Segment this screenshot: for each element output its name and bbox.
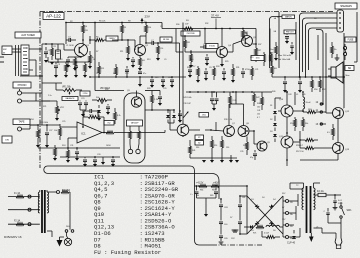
module outline	[124, 93, 145, 163]
junction dots right	[284, 76, 345, 93]
label box NF	[160, 37, 172, 42]
capacitor C2 elco	[56, 44, 61, 63]
svg-text:TAPE: TAPE	[19, 121, 25, 124]
ground G19	[220, 155, 224, 163]
resistor R32	[271, 62, 278, 77]
svg-text:C9: C9	[164, 59, 166, 61]
ground G20	[229, 155, 233, 163]
diode D9	[244, 225, 253, 229]
label row2 vals	[192, 66, 250, 71]
label 240	[66, 226, 70, 228]
wire psu rail	[195, 185, 241, 187]
wire Q1 base	[64, 44, 75, 50]
ground G16	[220, 58, 224, 67]
ground G2	[50, 62, 54, 65]
capacitor C29	[253, 150, 257, 160]
capacitor C13	[84, 101, 88, 111]
wire vert 270	[256, 29, 270, 63]
svg-text:10k: 10k	[54, 130, 57, 132]
svg-text:SW1: SW1	[347, 210, 353, 212]
capacitor C18	[75, 148, 79, 161]
terminal t3	[286, 224, 294, 229]
wire drv pair	[189, 122, 224, 131]
resistor R42b	[327, 124, 335, 140]
resistor R8	[145, 23, 153, 37]
wire psu feeds	[219, 181, 247, 196]
resistor R22	[189, 50, 193, 68]
terminal t4	[286, 236, 294, 241]
small text block	[278, 55, 292, 61]
svg-text:220: 220	[214, 145, 217, 147]
svg-text:BALANCE: BALANCE	[66, 97, 75, 100]
label pre out box	[284, 30, 296, 34]
wire out node	[293, 110, 304, 112]
capacitor C5	[146, 40, 158, 45]
resistor R27b	[270, 42, 278, 58]
resistor R9	[139, 56, 146, 69]
ground G26	[232, 230, 237, 232]
label speckle2	[66, 45, 149, 53]
wire mod right	[145, 106, 170, 111]
capacitor C7b	[125, 66, 129, 77]
svg-text:R21: R21	[43, 106, 46, 108]
wire bundle D	[309, 28, 338, 70]
capacitor C34	[219, 199, 223, 212]
diode D3	[273, 104, 277, 119]
junction dots psu	[196, 185, 248, 235]
resistor R11	[98, 62, 106, 77]
wire bundle C	[305, 23, 337, 78]
svg-text:MIC: MIC	[3, 49, 7, 51]
wire stage1 out	[112, 39, 135, 41]
label speckle3	[60, 59, 166, 61]
svg-text:CLP-40: CLP-40	[287, 242, 296, 245]
wire q6 base	[122, 110, 177, 133]
ground G8b	[64, 75, 68, 78]
ground G10	[161, 85, 165, 88]
svg-text:R45: R45	[243, 145, 246, 147]
fuse F2 box	[314, 190, 333, 197]
label cap vals	[224, 207, 229, 240]
op-amp IC1	[77, 122, 102, 143]
phono eq res	[114, 108, 121, 124]
svg-text:R39 1.2k: R39 1.2k	[224, 119, 232, 121]
resistor R15	[151, 91, 160, 107]
capacitor C27	[283, 77, 287, 93]
wire bus95 down	[42, 93, 57, 125]
fusing resistor FU	[184, 20, 193, 30]
svg-text:F1 3A: F1 3A	[14, 192, 21, 195]
capacitor C7	[54, 62, 61, 75]
T1 sec terminal	[57, 189, 71, 194]
svg-text:R23 100k: R23 100k	[40, 122, 48, 124]
pin circle P1	[128, 149, 132, 153]
svg-text:R3: R3	[60, 59, 62, 61]
wire jack feeds	[30, 93, 42, 101]
wire switch top	[332, 194, 341, 202]
label speakers box	[335, 3, 357, 9]
svg-text:R37: R37	[258, 44, 261, 46]
T1 terminal 2	[28, 208, 31, 211]
transistor Q4	[242, 36, 253, 47]
svg-text:8Ω: 8Ω	[348, 67, 351, 70]
terminal 11	[316, 109, 319, 112]
wire drv bottom	[190, 155, 237, 158]
resistor R17	[106, 131, 122, 134]
capacitor C9	[150, 77, 154, 85]
capacitor C39	[333, 195, 343, 206]
switch SW1	[340, 202, 352, 223]
label input select	[15, 32, 41, 38]
svg-text:R24: R24	[62, 145, 65, 147]
transistor Q7	[224, 126, 235, 137]
ground G15	[101, 157, 105, 165]
resistor R21	[184, 36, 192, 52]
resistor R1	[51, 44, 57, 60]
svg-text:C17: C17	[192, 66, 195, 68]
wire net148	[38, 147, 120, 149]
resistor R2k2	[229, 92, 238, 108]
ground G3	[66, 65, 70, 68]
capacitor C21	[200, 44, 210, 49]
left margin ticks	[0, 57, 4, 62]
speaker SP1	[328, 62, 343, 83]
wire module pins	[130, 144, 139, 149]
resistor R27	[270, 52, 273, 66]
ground G8d	[83, 75, 87, 78]
T1 secondary winding	[47, 190, 49, 213]
svg-text:IC1: IC1	[81, 132, 86, 136]
transistor Q13	[333, 143, 344, 154]
svg-text:C13: C13	[125, 73, 128, 75]
resistor R37	[303, 109, 320, 114]
resistor Rtr	[331, 42, 337, 58]
svg-text:C19: C19	[250, 57, 253, 59]
svg-text:R61: R61	[200, 190, 203, 192]
ground bus loop	[44, 166, 219, 199]
ground G25	[234, 226, 240, 232]
wire Q3 coll up	[221, 28, 223, 47]
label impedance	[345, 66, 354, 71]
transistor Q8	[238, 126, 249, 137]
pilot lamp	[64, 236, 71, 246]
svg-text:C45: C45	[302, 94, 305, 96]
svg-text:MAIN IN: MAIN IN	[285, 15, 292, 18]
svg-text:R6 22k: R6 22k	[99, 21, 105, 23]
chassis border top dash-dot	[40, 11, 333, 13]
svg-text:2.2k: 2.2k	[160, 48, 164, 50]
label out vals	[279, 99, 350, 153]
resistor R16	[82, 115, 105, 134]
ground G18	[210, 155, 214, 163]
jack J4	[18, 127, 31, 131]
capacitor C38	[238, 215, 242, 234]
resistor R19	[37, 125, 40, 142]
svg-text:20uH: 20uH	[306, 102, 311, 104]
wire left net125	[30, 124, 60, 127]
label fuse box	[345, 37, 356, 42]
T1 tap wire 3	[8, 223, 40, 225]
wire Q2 coll	[140, 36, 147, 45]
wire q10 q11	[286, 117, 288, 136]
T1 sec bottom	[47, 231, 60, 237]
shield wire pair	[12, 45, 21, 76]
capacitor C31	[290, 42, 294, 55]
svg-text:10/50: 10/50	[106, 145, 111, 147]
wire 256 up	[255, 29, 257, 45]
svg-text:Rxx: Rxx	[270, 49, 273, 51]
svg-text:R63: R63	[212, 190, 215, 192]
wire q7 up	[235, 91, 237, 104]
svg-text:D2: D2	[270, 119, 272, 121]
svg-text:1k: 1k	[93, 59, 95, 61]
resistor R6	[121, 23, 127, 41]
rail link	[161, 23, 163, 29]
svg-text:FU : Fusing Resistor: FU : Fusing Resistor	[94, 249, 161, 256]
svg-text:R49: R49	[257, 103, 260, 105]
capacitor C30	[285, 34, 289, 44]
label caps	[70, 145, 111, 156]
svg-text:R31: R31	[236, 67, 239, 69]
wire row76	[20, 75, 42, 77]
label din box	[2, 136, 12, 143]
wire vert95	[94, 23, 96, 91]
wire corner 269	[270, 17, 283, 21]
svg-text:D35/220V 16: D35/220V 16	[4, 235, 22, 239]
svg-text:R17: R17	[113, 73, 116, 75]
svg-text:PRE OUT: PRE OUT	[286, 32, 295, 34]
resistor R30	[231, 64, 235, 83]
svg-text:C29: C29	[163, 88, 166, 90]
capacitor C1	[44, 47, 51, 58]
wire 183 vertical	[182, 23, 184, 125]
resistor R4	[89, 51, 94, 66]
label cluster	[183, 97, 260, 119]
label trim box	[199, 113, 209, 118]
wire j4 feed	[30, 125, 38, 129]
wire IC1 inputs	[60, 127, 77, 148]
svg-text:R30: R30	[176, 24, 179, 26]
wire q10 base	[275, 108, 281, 111]
resistor R12	[115, 64, 118, 77]
wire T1 right	[69, 192, 70, 226]
resistor R10	[156, 43, 163, 61]
svg-text:FU: FU	[186, 20, 189, 22]
resistor R34	[211, 136, 214, 155]
svg-text:R33: R33	[216, 66, 219, 68]
wire mid right77	[272, 76, 345, 78]
wire q7 coll up	[229, 104, 244, 126]
T2 primary winding	[314, 186, 316, 210]
capacitor C8a	[74, 62, 78, 75]
label psu voltages	[196, 183, 219, 185]
diode D2	[167, 109, 176, 123]
capacitor C11	[170, 77, 174, 85]
T1 tap wire 2	[8, 209, 40, 211]
diode D7	[255, 221, 259, 225]
wire corner 279	[278, 11, 280, 13]
ground G24	[219, 242, 224, 244]
wire plug feed	[314, 223, 342, 238]
ground G13	[36, 142, 40, 148]
label P	[317, 226, 319, 230]
input connector CN1	[21, 45, 29, 75]
wire bundle A	[299, 13, 337, 78]
wire psu mid	[197, 198, 217, 210]
jack J2	[18, 89, 31, 95]
resistor Rc62	[261, 92, 264, 110]
svg-text:R50: R50	[314, 89, 317, 91]
terminal t2	[286, 212, 294, 217]
chassis border bottom dash-dot	[212, 244, 263, 246]
wire bundle E	[316, 30, 326, 34]
wire vert66	[65, 23, 67, 34]
wire vert 205	[204, 28, 206, 44]
pot VR2	[56, 102, 65, 118]
T2 ground arrow	[309, 233, 314, 242]
wire module top	[124, 91, 160, 97]
ground G9	[150, 85, 154, 88]
terminal circles out	[320, 103, 322, 125]
chassis border left dash-dot	[39, 12, 41, 169]
svg-text:23V: 23V	[145, 15, 150, 19]
resistor R11b	[84, 62, 87, 75]
ground G28	[333, 206, 338, 210]
transistor Q9	[257, 141, 267, 151]
wire Q2 base	[133, 40, 136, 50]
svg-text:C43: C43	[288, 94, 291, 96]
resistor R33	[189, 140, 192, 158]
label predrv box	[181, 31, 200, 36]
capacitor C15	[178, 110, 182, 123]
wire Q1 emitter	[68, 57, 81, 59]
diode D5b	[273, 131, 277, 140]
wire vert 176	[175, 29, 177, 44]
svg-text:NF 560: NF 560	[163, 39, 170, 41]
wire Q3 base	[185, 51, 216, 53]
resistor R20	[66, 148, 70, 163]
wire pot mid	[80, 110, 86, 117]
resistor R41	[300, 142, 320, 150]
transistor Q11	[281, 136, 293, 148]
pin labels	[274, 17, 318, 33]
wire terms	[283, 196, 286, 237]
svg-text:R43 100k: R43 100k	[183, 97, 192, 99]
wire q12 base	[320, 112, 332, 113]
capacitor C18b	[83, 157, 87, 167]
T1 sec top wire	[47, 191, 57, 193]
svg-text:C21: C21	[255, 69, 258, 71]
wire 179 vertical	[176, 43, 180, 120]
ground G8a	[54, 75, 58, 78]
capacitor C17	[45, 127, 49, 140]
resistor R28c	[319, 77, 322, 92]
terminal strip TB1	[337, 10, 344, 32]
svg-text:R41: R41	[192, 150, 195, 152]
svg-text:R7: R7	[96, 51, 98, 53]
wire rail90	[95, 87, 124, 91]
ground G4	[73, 68, 77, 71]
svg-text:4.7: 4.7	[257, 117, 260, 119]
wire 37V tap	[215, 19, 217, 30]
label speckle4	[190, 37, 261, 63]
ground G21	[235, 160, 239, 163]
resistor R39	[302, 117, 305, 131]
wire to Q3	[157, 42, 183, 52]
T2 secondary winding	[302, 186, 304, 210]
svg-text:C39 10P: C39 10P	[183, 103, 191, 105]
label module box	[127, 120, 143, 126]
capacitor C12	[78, 101, 82, 111]
input jack J1	[2, 46, 12, 55]
svg-text:AP-122: AP-122	[46, 14, 61, 19]
wire q13 down	[300, 148, 338, 160]
resistor R26	[263, 52, 266, 66]
svg-text:Max 200 mW: Max 200 mW	[278, 55, 292, 57]
ground G17	[202, 160, 206, 163]
label speckle1	[70, 21, 163, 29]
label speckle7	[30, 95, 84, 121]
resistor R45	[262, 236, 280, 239]
T1 aux contacts	[65, 226, 74, 236]
capacitor C6	[131, 57, 135, 65]
wire vert 323	[322, 33, 324, 104]
wire bottom links	[261, 227, 263, 237]
svg-text:47p: 47p	[250, 157, 253, 159]
ground G5	[88, 66, 92, 69]
wire bridge left	[240, 196, 247, 234]
transistor Q12	[333, 108, 344, 119]
wire q13 base	[320, 147, 332, 149]
wire IC1 out	[102, 132, 110, 134]
wire out mid	[293, 131, 301, 142]
capacitor C37	[238, 196, 242, 215]
resistor R35	[221, 136, 224, 155]
terminal 13	[316, 123, 327, 126]
label balance box	[62, 97, 78, 101]
svg-text:FUSE: FUSE	[348, 39, 354, 41]
label tape jack	[13, 119, 30, 125]
junction dots row2	[89, 76, 173, 78]
svg-text:R26: R26	[105, 89, 108, 91]
rail B 37V	[162, 28, 256, 30]
label speckle16	[144, 21, 208, 26]
svg-text:C25: C25	[62, 121, 65, 123]
svg-text:330: 330	[196, 147, 199, 149]
transistor Q6	[177, 124, 189, 136]
svg-text:DIN: DIN	[5, 139, 9, 141]
resistor R28	[196, 66, 200, 83]
label speckle8	[40, 121, 65, 147]
pin circle P2	[136, 149, 140, 153]
svg-text:R27: R27	[187, 67, 190, 69]
label speckle10	[185, 123, 271, 144]
wire drive in	[122, 130, 170, 133]
ground G14	[45, 140, 49, 148]
svg-text:2SC2240: 2SC2240	[187, 33, 196, 35]
svg-text:R32: R32	[205, 23, 208, 25]
ground G7	[131, 65, 135, 68]
svg-text:C17: C17	[209, 67, 212, 69]
wire Q1 collector	[82, 38, 84, 44]
svg-text:C61: C61	[242, 197, 245, 199]
plug PL1	[335, 232, 343, 249]
resistor R31	[251, 66, 254, 80]
svg-text:37.4V: 37.4V	[211, 14, 219, 18]
svg-text:R40: R40	[272, 91, 275, 93]
T1 sec fuse	[61, 191, 69, 194]
svg-text:R28: R28	[147, 88, 150, 90]
